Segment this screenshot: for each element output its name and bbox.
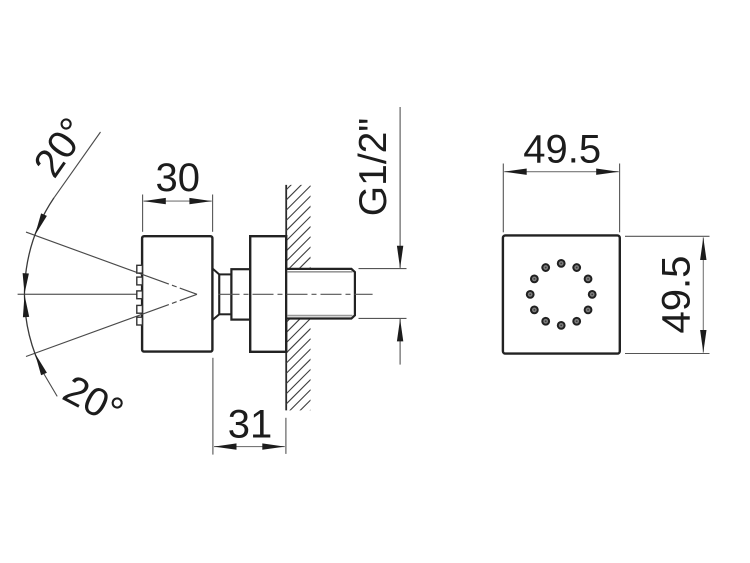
node arc arrow below horizontal	[23, 295, 29, 318]
dimension 30 right arrow	[189, 198, 212, 204]
dimension 49.5 right top arrow	[700, 238, 706, 261]
wall hatching	[276, 156, 320, 455]
dimension 31 left arrow	[214, 443, 237, 449]
dimension G12 line lower	[399, 319, 401, 365]
dimension 30 line	[144, 200, 212, 202]
dimension 49.5 right line	[702, 237, 704, 352]
svg-text:31: 31	[228, 402, 273, 446]
node jet dots circle	[527, 260, 596, 329]
wire bottom angle leader	[44, 374, 57, 396]
front view square	[503, 235, 620, 353]
wire centerline right dash-dot	[219, 293, 373, 295]
svg-text:G1/2": G1/2"	[352, 118, 395, 216]
dimension 49.5 right extension lines	[625, 235, 710, 237]
flange escutcheon	[250, 236, 286, 352]
node cone taper	[213, 269, 220, 321]
dimension G12 line upper	[399, 107, 401, 268]
dimension G12 extension lines	[359, 268, 407, 270]
svg-text:49.5: 49.5	[654, 256, 698, 334]
body block side view	[142, 236, 212, 351]
dimension 49.5 top line	[504, 171, 619, 173]
dimension 31 extension lines	[212, 358, 214, 455]
dimension 30 extension lines	[142, 195, 144, 232]
wire top angle leader	[54, 132, 101, 198]
dimension 31 line	[214, 446, 285, 448]
thread root line top	[288, 271, 353, 273]
dimension 30 left arrow	[143, 198, 166, 204]
dimension 49.5 right bottom arrow	[700, 330, 706, 353]
thread root line bottom	[288, 315, 353, 317]
dimension 31 right arrow	[262, 443, 285, 449]
dimension G12 upper arrow	[397, 246, 403, 268]
dimension G12 lower arrow	[397, 319, 403, 342]
wire angle dimension arc	[24, 198, 54, 374]
node arc arrow at lower spray line	[35, 353, 47, 375]
dimension 49.5 top left arrow	[504, 169, 527, 175]
dimension 49.5 top extension lines	[502, 164, 504, 233]
node neck large cylinder	[231, 269, 250, 319]
node arc arrow at upper spray line	[35, 213, 47, 235]
svg-text:30: 30	[156, 156, 201, 200]
node neck small cylinder	[219, 274, 231, 314]
svg-text:49.5: 49.5	[523, 128, 601, 172]
node arc arrow above horizontal	[23, 273, 29, 294]
wall face line	[285, 185, 287, 269]
dimension 49.5 top right arrow	[596, 169, 619, 175]
node spray axis upper 20-degree line	[26, 232, 197, 294]
wire centerline left of body	[18, 293, 137, 295]
node spray axis lower 20-degree line	[26, 294, 197, 356]
threaded pipe	[286, 269, 355, 319]
node nozzle squares	[137, 265, 143, 325]
